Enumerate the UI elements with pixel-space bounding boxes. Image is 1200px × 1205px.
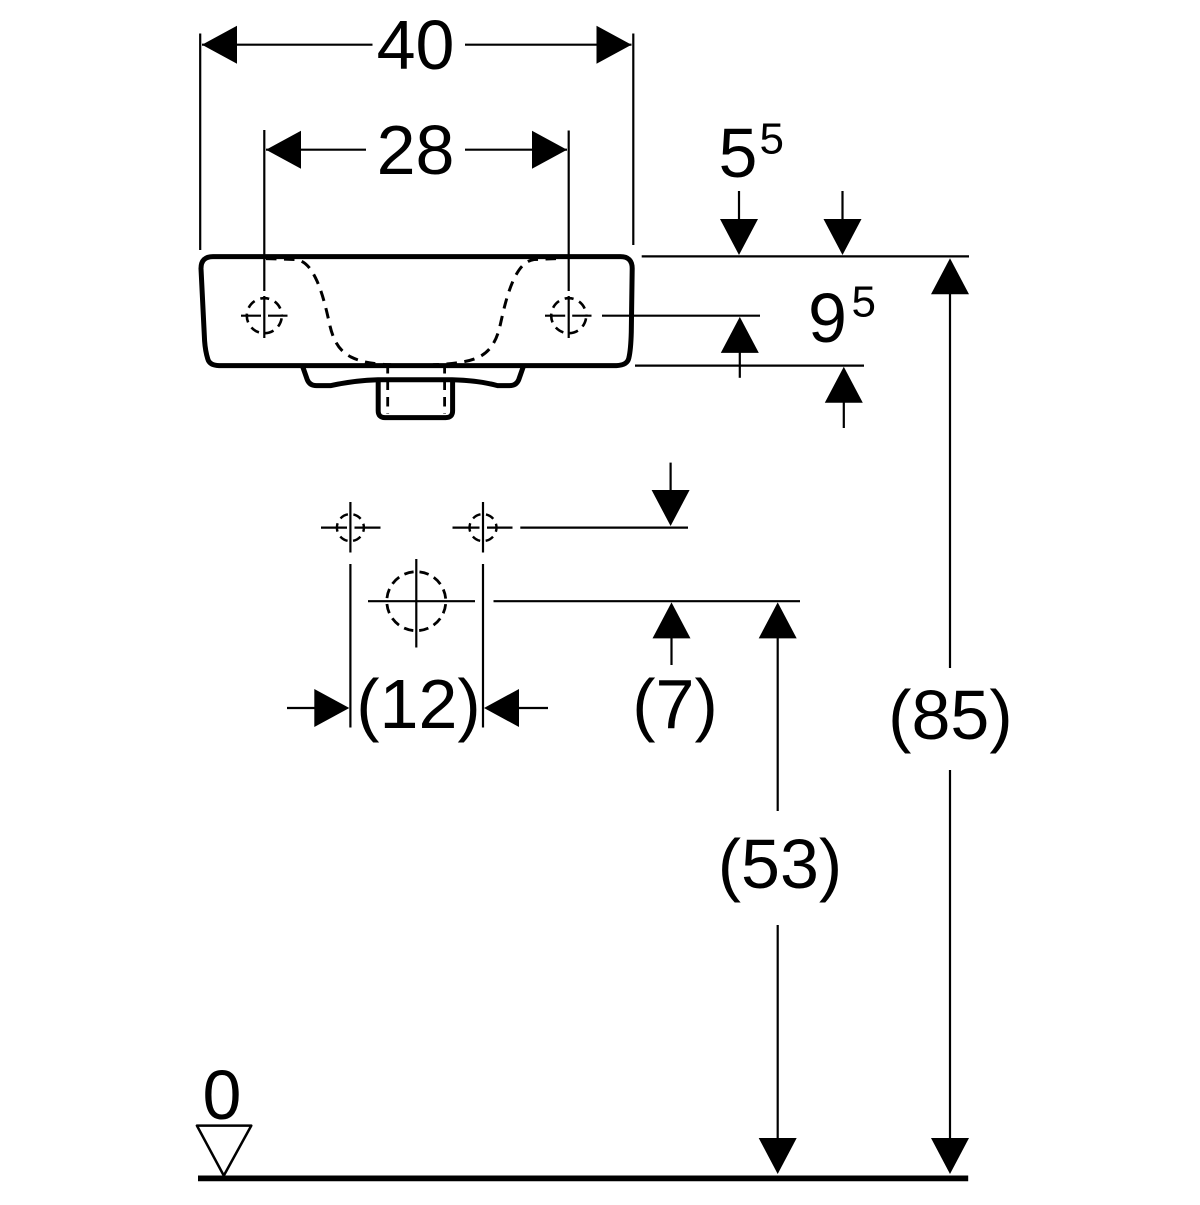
dimension 85: bottom down arrowhead — [931, 1138, 969, 1174]
left fixing hole: dashed circle — [337, 514, 364, 541]
dimension 28: dimension line left segment — [266, 149, 366, 151]
dimension 40: left arrowhead — [202, 26, 237, 64]
right tap hole: horizontal centreline right segment — [572, 315, 591, 317]
dimension 28: right arrowhead — [532, 131, 567, 169]
dimension 28: dimension line right segment — [465, 149, 567, 151]
dimension 28: left extension line upper part — [263, 130, 265, 291]
left fixing hole: vertical centreline — [349, 502, 351, 553]
dimension 85: lower stem — [949, 770, 951, 1138]
dimension 12: left arrow stem — [287, 707, 318, 709]
dimension 28: right extension line upper part — [568, 131, 570, 292]
dimension 40: dimension line left segment — [202, 44, 373, 46]
dimension 12: right arrowhead — [484, 689, 519, 727]
dimension 53: bottom down arrowhead — [759, 1138, 797, 1174]
fixing hole height: down arrow stem — [669, 463, 671, 498]
dimension 40: dimension line right segment — [465, 44, 632, 46]
reference line at basin bottom extending right — [635, 365, 864, 367]
dimension 7: up arrow stem — [670, 606, 672, 665]
floor baseline — [198, 1176, 968, 1182]
datum triangle symbol — [197, 1126, 251, 1176]
reference line at basin top extending right — [642, 255, 969, 257]
svg-text:5: 5 — [852, 278, 876, 327]
inner bowl dashed contour right branch — [433, 259, 556, 365]
right fixing hole: vertical centreline — [482, 502, 484, 553]
dimension 85: upper stem — [949, 262, 951, 668]
dimension 9.5: upper up arrowhead — [721, 317, 759, 353]
svg-text:(53): (53) — [718, 825, 842, 903]
dimension 28: left arrowhead — [266, 131, 301, 169]
drain pipe right dashed hidden line — [443, 364, 446, 414]
dimension 53: lower stem — [777, 925, 779, 1138]
drain hole: horizontal centreline — [368, 600, 475, 602]
dimension 12: right extension line — [482, 564, 484, 728]
svg-text:28: 28 — [377, 111, 455, 189]
leader line at tap hole height — [602, 315, 760, 317]
svg-text:0: 0 — [203, 1056, 242, 1134]
dimension 12: left arrowhead — [314, 689, 349, 727]
svg-text:(85): (85) — [888, 676, 1012, 754]
svg-text:40: 40 — [377, 6, 455, 84]
right fixing hole: horizontal centreline left segment — [453, 526, 480, 528]
dimension 5.5: right down arrow stem — [841, 191, 843, 228]
svg-text:(7): (7) — [632, 665, 718, 743]
dimension 40: right arrowhead — [597, 26, 632, 64]
dimension 40: right extension line — [632, 34, 634, 246]
dimension 9.5: lower up arrow stem — [843, 370, 845, 428]
drain hole: dashed circle — [387, 572, 446, 631]
right fixing hole: horizontal centreline right segment — [487, 526, 513, 528]
dimension 5.5: left down arrowhead — [720, 219, 758, 255]
dimension 9.5: lower up arrowhead — [825, 367, 863, 403]
svg-text:(12): (12) — [356, 665, 480, 743]
semi-pedestal / trap cover outline — [302, 366, 523, 386]
right tap hole: horizontal centreline left segment — [545, 315, 565, 317]
left fixing hole: horizontal centreline right segment — [355, 526, 381, 528]
dimension 40: left extension line — [199, 34, 201, 251]
drain pipe left dashed hidden line — [386, 364, 389, 414]
drain hole: vertical centreline — [415, 559, 417, 648]
dimension 53: top up arrowhead — [759, 602, 797, 638]
inner bowl dashed contour left branch — [266, 259, 391, 365]
dimension 5.5: left down arrow stem — [738, 191, 740, 228]
reference line at fixing hole height — [520, 526, 688, 528]
dimension 28: right extension line lower part — [568, 296, 570, 338]
svg-text:5: 5 — [719, 114, 758, 192]
dimension 12: right arrow stem — [516, 707, 548, 709]
left fixing hole: horizontal centreline left segment — [321, 526, 347, 528]
left tap hole: dashed circle — [247, 298, 282, 333]
dimension 5.5: right down arrowhead — [824, 219, 862, 255]
right fixing hole: dashed circle — [470, 514, 497, 541]
dimension 85: top up arrowhead — [931, 258, 969, 294]
dimension 53: upper stem — [777, 606, 779, 811]
dimension 9.5: upper up arrow stem — [739, 320, 741, 378]
dimension 12: left extension line — [349, 564, 351, 728]
left tap hole: horizontal centreline left segment — [241, 315, 261, 317]
fixing hole height: down arrowhead — [652, 490, 690, 526]
right tap hole: dashed circle — [551, 298, 586, 333]
reference line at drain height — [494, 600, 801, 602]
svg-text:5: 5 — [760, 115, 784, 164]
drain pipe outline — [378, 380, 452, 418]
dimension 28: left extension line lower part — [263, 296, 265, 338]
dimension 7: up arrowhead — [653, 602, 691, 638]
svg-text:9: 9 — [808, 279, 847, 357]
washbasin outline — [201, 257, 632, 366]
left tap hole: horizontal centreline right segment — [268, 315, 288, 317]
